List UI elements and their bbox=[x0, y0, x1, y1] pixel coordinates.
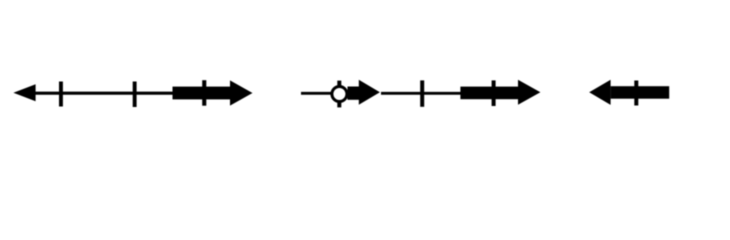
number line 2 short bold arrowhead bbox=[359, 80, 380, 105]
bold left arrow 3 tick mark bbox=[634, 81, 638, 106]
number line 2 tick mark E on bold ray bbox=[492, 80, 496, 106]
number line 1 tick mark C on bold ray bbox=[202, 80, 206, 106]
number line 1 bold ray bar bbox=[173, 87, 231, 100]
number line 2 open circle endpoint bbox=[332, 87, 347, 102]
bold left arrow 3 bar bbox=[611, 86, 670, 99]
bold left arrow 3 arrowhead bbox=[589, 80, 610, 105]
number line 2 right wire segment bbox=[381, 92, 462, 95]
number line 1 axis wire bbox=[33, 92, 175, 95]
number line 1 bold right arrowhead bbox=[230, 80, 253, 105]
number line 1 tick mark A bbox=[59, 82, 63, 107]
number line 1 tick mark B bbox=[133, 82, 137, 108]
number line 1 left arrowhead bbox=[13, 84, 35, 101]
number line 2 tick mark D bbox=[420, 80, 424, 106]
number line 2 tick mark through circle bbox=[337, 81, 341, 108]
number line 2 bold ray bar bbox=[460, 87, 519, 100]
number line 2 left wire segment bbox=[301, 92, 333, 95]
number line 2 bold right arrowhead bbox=[518, 80, 540, 105]
number line 2 short bold bar bbox=[348, 87, 360, 100]
